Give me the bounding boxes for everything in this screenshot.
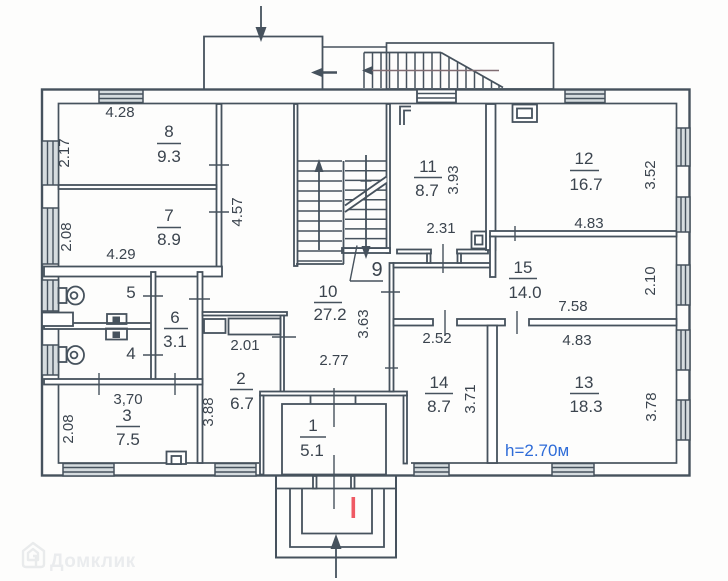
dim tick hall 2.77 [385,367,398,369]
window bottom 3 [414,464,449,477]
svg-text:2.31: 2.31 [426,220,455,237]
top stair steps [364,53,499,89]
wall hall/arm divider [390,263,394,392]
svg-text:4.28: 4.28 [105,104,134,121]
porch door stub left [313,476,317,489]
svg-text:3,70: 3,70 [113,391,142,408]
svg-text:8.9: 8.9 [157,230,181,249]
central stair break mask [345,176,387,211]
svg-text:18.3: 18.3 [569,397,602,416]
svg-text:4: 4 [126,344,135,363]
wall between rooms 11 and 12 [486,104,496,250]
wall top of room 3 [44,379,203,385]
svg-text:3.71: 3.71 [462,384,479,413]
door tick hall-arm [381,291,400,293]
top porch direction dash [318,71,337,74]
window left 2 [42,208,59,264]
room 11 door stub left [427,254,431,264]
vent box room 12 [513,105,538,123]
svg-text:12: 12 [575,149,594,168]
window bottom 1 [63,464,114,477]
central stair bottom cap [296,263,344,265]
door tick room 2 [272,336,296,338]
svg-text:10: 10 [319,282,338,301]
wall W1 right of rooms 8/7 [217,104,222,269]
central stair break lines [345,183,387,212]
svg-text:2.77: 2.77 [319,352,348,369]
svg-text:14: 14 [430,373,449,392]
room1 block top wall [260,392,407,396]
toilet room 5 bowl [67,287,84,305]
svg-text:Домклик: Домклик [50,551,136,572]
room 15 left wall [490,237,496,278]
arm top wall [394,263,493,268]
wall right of room 2 upper [281,316,285,394]
window top-left [99,90,143,103]
svg-text:3.88: 3.88 [200,397,217,426]
outer wall inner line [59,104,677,464]
entry steps below top stairs [417,90,456,103]
svg-text:3.93: 3.93 [445,165,462,194]
door tick room 8 [209,164,229,166]
door tick room 11 [442,244,444,273]
svg-text:2.52: 2.52 [422,330,451,347]
window right 5 [677,400,691,440]
svg-text:3: 3 [122,406,131,425]
svg-text:4.57: 4.57 [229,197,246,226]
svg-text:6: 6 [170,308,179,327]
svg-text:8.7: 8.7 [427,397,451,416]
svg-text:3.1: 3.1 [163,332,187,351]
room1 block right wall [404,396,408,464]
svg-text:9: 9 [371,259,382,281]
vent box room 11 [472,232,487,249]
central stair flight divider [343,161,345,264]
top porch entry arrow [260,6,262,32]
svg-text:7.5: 7.5 [116,430,140,449]
wall between rooms 14 and 13 [488,326,498,464]
wall below room 7 [44,267,222,277]
door tick room 14 [444,310,446,336]
wall between rooms 8 and 7 [59,185,217,189]
svg-text:2: 2 [236,369,245,388]
central stair up arrow [318,168,320,250]
svg-text:8: 8 [164,122,173,141]
toilet room 5 tank [59,288,67,303]
room 11 bottom wall [397,250,431,254]
top stair diagonal [441,53,503,88]
door tick room 6 [189,298,210,300]
axis line through room 1 [333,388,335,427]
svg-text:6.7: 6.7 [230,394,254,413]
svg-text:9.3: 9.3 [157,147,181,166]
door tick room 5 [143,295,163,297]
vent box room 3 [167,452,187,465]
bottom porch middle rect [290,489,384,547]
svg-text:16.7: 16.7 [569,175,602,194]
svg-text:7.58: 7.58 [558,298,587,315]
svg-text:3.52: 3.52 [642,160,659,189]
porch door stub right [351,476,355,489]
door jamb room 11 [400,107,411,126]
top stair arrow line [368,70,499,72]
room 1 box [282,404,386,475]
svg-text:2.17: 2.17 [56,138,73,167]
stairwell right wall [387,104,391,253]
room 11 door stub right [458,254,462,264]
door tick room 3 b [174,373,176,395]
window bottom 2 [215,464,256,477]
svg-text:2.08: 2.08 [58,222,75,251]
central stair right flight steps [345,161,387,248]
window right 3 [677,265,691,305]
window right 1 [677,128,691,166]
top porch connector line [323,46,388,48]
wall between rooms 12 and 15 [490,231,677,237]
sink room 5 [107,314,127,324]
cabinet room 2 [204,319,226,333]
wall top of room 2 [203,312,288,316]
svg-text:5: 5 [126,283,135,302]
watermark logo [23,543,44,567]
central stair down arrow [365,155,367,248]
svg-text:13: 13 [575,373,594,392]
wall right of rooms 5/4 [151,272,156,381]
door tick room 3 a [98,373,100,395]
top stair box [387,43,554,89]
bottom porch top line [276,488,396,490]
svg-text:4.29: 4.29 [106,246,135,263]
wall 15/13-14 segment c [529,319,677,326]
svg-text:11: 11 [419,157,437,176]
svg-text:7: 7 [164,206,173,225]
niche left wall [42,313,73,327]
svg-text:1: 1 [308,416,317,435]
central stair left flight steps [298,161,343,261]
door tick room 7 [209,211,229,213]
window right 4 [677,330,691,370]
top porch [204,37,323,90]
outer wall outline [42,90,690,476]
porch entry arrow [335,546,337,578]
closet room 2 [229,319,281,335]
window top-right [565,90,605,103]
top stair cap line [364,52,441,54]
red section mark [352,497,356,518]
wall right of room 6 and room 3 / left of room 2 [198,272,203,463]
svg-text:8.7: 8.7 [415,181,439,200]
bottom porch inner rect [302,489,372,534]
room1 block left wall [260,396,264,475]
door tick room 13 [516,311,518,334]
stairwell left wall [294,104,298,266]
svg-text:3.63: 3.63 [355,309,372,338]
wall between rooms 5 and 4 [44,323,152,329]
svg-text:2.10: 2.10 [642,266,659,295]
svg-text:4.83: 4.83 [562,332,591,349]
window left 4 [42,345,59,375]
dim tick 12/15 [514,226,516,241]
window left 3 [42,280,59,311]
room 1 door stub left [310,396,312,405]
svg-text:5.1: 5.1 [300,441,324,460]
window left 1 [42,141,59,185]
svg-text:4.83: 4.83 [574,215,603,232]
svg-text:3.78: 3.78 [643,392,660,421]
room 1 door stub right [355,396,357,405]
sink room 4 [106,329,127,340]
window right 2 [677,197,691,232]
svg-text:h=2.70м: h=2.70м [505,441,569,460]
svg-text:14.0: 14.0 [508,283,541,302]
wall 15/13-14 segment b [457,319,505,326]
white cover for room1 block over inner bottom line [259,456,411,467]
toilet room 4 tank [59,347,67,362]
bottom porch outer [276,476,396,558]
wall 15/13-14 segment a [394,319,434,326]
toilet room 4 bowl [67,346,84,364]
room 9 leader [350,246,357,282]
stairwell bottom wall [342,248,390,253]
svg-text:2.08: 2.08 [60,414,77,443]
svg-text:2.01: 2.01 [230,337,259,354]
svg-text:15: 15 [514,258,533,277]
svg-text:27.2: 27.2 [313,305,346,324]
door tick room 4 [143,354,163,356]
window bottom 4 [552,464,594,477]
